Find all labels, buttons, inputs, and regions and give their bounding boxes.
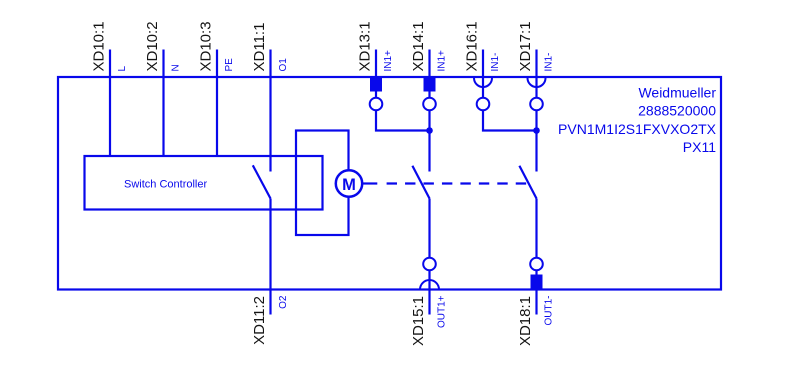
wire XD13 to node — [376, 110, 430, 130]
svg-text:XD11:1: XD11:1 — [251, 23, 268, 72]
svg-text:OUT1+: OUT1+ — [437, 295, 448, 328]
wire O1 lower / terminal XD11:2 — [269, 199, 271, 315]
switch S3 blade (OUT1-) — [519, 166, 536, 199]
svg-text:XD18:1: XD18:1 — [517, 296, 534, 346]
svg-text:O1: O1 — [278, 58, 289, 72]
terminal XD11:1 (O1) wire upper — [269, 50, 271, 172]
terminal XD18:1 (OUT1-) wire — [535, 270, 537, 314]
svg-text:PX11: PX11 — [683, 139, 716, 155]
actuator bracket — [296, 131, 349, 236]
svg-text:XD14:1: XD14:1 — [410, 21, 427, 71]
terminal XD13:1 (IN1+) wire — [375, 50, 377, 98]
terminal XD10:1 (L) wire — [109, 50, 111, 157]
junction node IN1+ — [426, 127, 433, 134]
terminal XD17:1 (IN1-) wire — [535, 50, 537, 98]
mechanical link (dashed) — [362, 182, 378, 184]
svg-text:Weidmueller: Weidmueller — [638, 84, 716, 100]
wire XD17 to switch S3 — [535, 110, 537, 171]
svg-text:IN1-: IN1- — [490, 53, 501, 72]
wire XD14 to switch S2 — [428, 110, 430, 171]
svg-text:XD17:1: XD17:1 — [517, 21, 534, 71]
svg-text:Switch Controller: Switch Controller — [124, 179, 207, 191]
svg-text:XD15:1: XD15:1 — [410, 296, 427, 346]
motor M1 — [336, 170, 362, 196]
contact circle XD16 — [477, 98, 490, 111]
contact circle XD14 — [423, 98, 436, 111]
svg-text:XD10:3: XD10:3 — [198, 21, 215, 71]
contact circle XD15 — [423, 258, 436, 271]
svg-text:IN1+: IN1+ — [383, 50, 394, 72]
svg-text:2888520000: 2888520000 — [638, 103, 716, 119]
svg-text:XD10:1: XD10:1 — [91, 21, 108, 71]
terminal XD16:1 (IN1-) wire — [482, 50, 484, 98]
device outline — [58, 77, 721, 290]
male contact XD13 — [370, 78, 382, 92]
wire S2 to XD15 — [428, 199, 430, 258]
svg-text:PVN1M1I2S1FXVXO2TX: PVN1M1I2S1FXVXO2TX — [558, 121, 717, 137]
terminal XD10:2 (N) wire — [162, 50, 164, 157]
svg-text:XD11:2: XD11:2 — [251, 296, 268, 345]
svg-text:O2: O2 — [278, 295, 289, 309]
terminal XD10:3 (PE) wire — [216, 50, 218, 157]
female contact XD15 — [420, 280, 439, 290]
switch S2 blade (OUT1+) — [412, 166, 429, 199]
switch S1 blade (O1) — [253, 165, 271, 198]
contact circle XD18 — [530, 258, 543, 271]
svg-text:XD16:1: XD16:1 — [464, 21, 481, 71]
Switch Controller box — [85, 156, 323, 210]
svg-text:XD13:1: XD13:1 — [357, 21, 374, 71]
female contact XD17 — [528, 78, 546, 87]
svg-text:IN1+: IN1+ — [437, 50, 448, 72]
svg-text:OUT1-: OUT1- — [544, 296, 555, 326]
female contact XD16 — [474, 78, 492, 87]
svg-text:L: L — [117, 66, 128, 72]
svg-text:XD10:2: XD10:2 — [144, 21, 161, 71]
svg-text:M: M — [342, 176, 356, 194]
terminal XD14:1 (IN1+) wire — [428, 50, 430, 98]
terminal XD15:1 (OUT1+) wire — [428, 270, 430, 314]
svg-text:PE: PE — [224, 58, 235, 72]
svg-text:IN1-: IN1- — [544, 53, 555, 72]
wire XD16 to node — [483, 110, 537, 130]
junction node IN1- — [533, 127, 540, 134]
svg-text:N: N — [171, 64, 182, 71]
contact circle XD13 — [370, 98, 383, 111]
wire S3 to XD18 — [535, 199, 537, 258]
male contact XD14 — [424, 78, 436, 92]
male contact XD18 — [531, 275, 543, 290]
contact circle XD17 — [530, 98, 543, 111]
